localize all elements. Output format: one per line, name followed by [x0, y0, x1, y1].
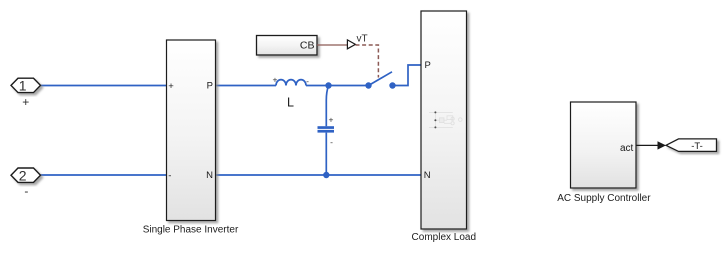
- wire node A down to capacitor: [326, 86, 328, 127]
- breaker right contact: [389, 82, 395, 88]
- inductor L: [276, 80, 306, 86]
- svg-text:vT: vT: [357, 34, 368, 45]
- svg-text:Single Phase Inverter: Single Phase Inverter: [143, 225, 239, 236]
- signal arrowhead at vT: [347, 40, 355, 49]
- breaker left contact: [365, 82, 371, 88]
- port 2: [11, 167, 41, 183]
- svg-text:act: act: [620, 143, 634, 154]
- ghost icon inside Complex Load: [429, 112, 462, 127]
- ghost icon terminal dots: [434, 111, 436, 128]
- svg-text:+: +: [329, 114, 334, 124]
- svg-text:N: N: [206, 170, 213, 181]
- svg-text:+: +: [22, 95, 29, 109]
- svg-text:+: +: [168, 81, 174, 92]
- signal wire act to tag: [636, 144, 659, 146]
- svg-text:+: +: [273, 74, 278, 84]
- wire capacitor to N net: [325, 133, 327, 175]
- block Complex Load: [421, 11, 467, 229]
- block AC Supply Controller: [571, 102, 637, 188]
- svg-text:-: -: [168, 171, 171, 182]
- svg-text:AC Supply Controller: AC Supply Controller: [557, 193, 651, 204]
- svg-text:N: N: [424, 170, 431, 181]
- wire port 2 to inverter - pin: [41, 174, 167, 176]
- svg-text:-T-: -T-: [691, 141, 703, 152]
- port 1: [11, 77, 41, 93]
- signal arrowhead into tag: [658, 141, 667, 149]
- svg-text:2: 2: [19, 167, 27, 183]
- svg-text:P: P: [425, 60, 431, 71]
- physical signal line CB output: [317, 44, 347, 46]
- block CB: [257, 36, 318, 56]
- wire port 1 to inverter + pin: [41, 85, 167, 87]
- wire inverter P to inductor: [216, 85, 277, 87]
- node A junction on P net: [325, 82, 331, 88]
- svg-text:1: 1: [19, 77, 27, 93]
- svg-text:-: -: [24, 184, 28, 198]
- wire breaker to Complex Load P pin: [393, 65, 422, 86]
- svg-text:P: P: [207, 81, 213, 92]
- dashed control line vT to breaker: [356, 45, 379, 78]
- svg-text:-: -: [330, 137, 333, 147]
- block Single Phase Inverter: [167, 40, 216, 221]
- breaker blade (open): [369, 72, 393, 86]
- svg-text:Complex Load: Complex Load: [412, 232, 476, 243]
- goto tag -T-: [666, 139, 717, 152]
- svg-text:CB: CB: [300, 40, 315, 52]
- capacitor C plates: [318, 126, 335, 132]
- svg-text:-: -: [306, 76, 309, 86]
- node B junction on N net: [323, 172, 329, 178]
- wire inverter N to Complex Load N pin: [216, 174, 422, 176]
- svg-text:L: L: [287, 96, 294, 110]
- wire inductor to breaker left contact: [306, 85, 369, 87]
